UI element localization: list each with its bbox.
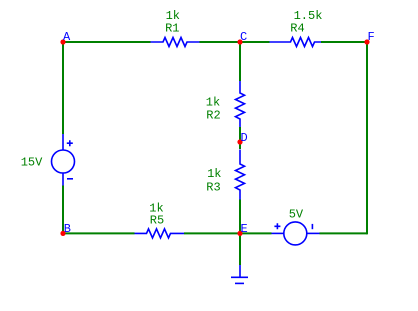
svg-text:R2: R2 (206, 109, 220, 123)
svg-text:A: A (63, 30, 71, 44)
svg-text:D: D (241, 131, 248, 145)
svg-text:R1: R1 (165, 22, 179, 36)
svg-text:C: C (240, 30, 247, 44)
svg-text:R5: R5 (150, 214, 164, 228)
svg-text:B: B (64, 222, 71, 236)
svg-text:15V: 15V (21, 156, 43, 170)
svg-text:1k: 1k (206, 96, 220, 110)
svg-text:5V: 5V (289, 208, 304, 222)
svg-text:1k: 1k (207, 167, 221, 181)
svg-text:F: F (368, 30, 375, 44)
svg-text:R4: R4 (290, 22, 304, 36)
svg-text:R3: R3 (206, 181, 220, 195)
svg-text:E: E (241, 222, 248, 236)
